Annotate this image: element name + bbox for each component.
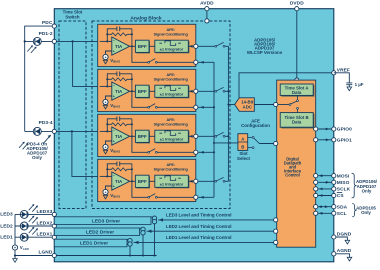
svg-text:GPIO1: GPIO1 — [337, 137, 352, 143]
svg-text:MISO: MISO — [337, 180, 350, 186]
AFE channel 1 — [98, 24, 229, 66]
wire LED2 level and timing — [147, 230, 276, 232]
LED supply bus — [15, 214, 21, 245]
LED2 — [20, 222, 28, 230]
wire SCL — [316, 212, 334, 214]
Analog Block dashed box — [92, 21, 230, 209]
wire SCLK — [316, 188, 334, 190]
time slot A data shadow — [281, 85, 314, 96]
time slot B data shadow — [281, 114, 314, 129]
svg-text:B: B — [241, 145, 244, 150]
svg-text:CS: CS — [337, 193, 345, 199]
svg-text:LED1: LED1 — [0, 235, 13, 241]
svg-text:PDC: PDC — [42, 20, 53, 26]
svg-text:SCLK: SCLK — [337, 187, 351, 193]
photons into PD1-2 — [27, 45, 36, 53]
wire config bus to slot select — [214, 142, 238, 144]
svg-text:ADC: ADC — [243, 104, 253, 109]
svg-text:+: + — [14, 246, 16, 250]
photons into PD3-4 — [19, 142, 28, 150]
svg-text:DGND: DGND — [337, 231, 352, 237]
svg-text:Only: Only — [361, 210, 371, 215]
svg-text:1 µF: 1 µF — [355, 82, 364, 87]
AFE channel 2 — [98, 69, 229, 111]
ground AGND — [347, 257, 352, 261]
svg-text:Select: Select — [237, 156, 250, 161]
svg-text:Only: Only — [362, 188, 372, 193]
brace I2C group — [352, 204, 356, 217]
switch slot select — [248, 137, 253, 147]
svg-text:Only: Only — [32, 155, 42, 160]
wire MISO — [316, 181, 334, 183]
LED2 driver box — [54, 228, 139, 236]
LED1 — [20, 233, 28, 241]
ground VLED — [13, 259, 18, 263]
photons from LED2 — [29, 216, 38, 224]
wire CS — [316, 195, 334, 197]
LED3 — [20, 210, 28, 218]
svg-text:LEDX1: LEDX1 — [37, 232, 53, 238]
svg-text:LED3: LED3 — [0, 212, 13, 218]
svg-text:LEDX3: LEDX3 — [37, 209, 53, 215]
svg-text:LED1 Level and Timing Control: LED1 Level and Timing Control — [166, 235, 232, 240]
brace SPI group — [352, 173, 357, 198]
svg-text:LED2 Driver: LED2 Driver — [86, 230, 114, 236]
AFE channel 4 — [98, 159, 229, 201]
wire ADC bus to ADC — [228, 104, 234, 106]
svg-text:Data: Data — [292, 90, 302, 95]
wire PDC external — [25, 26, 55, 131]
wire LED3 level and timing — [158, 219, 276, 221]
slot select A/B box — [238, 134, 248, 151]
LGND internal rail — [56, 255, 156, 257]
AFE channel 3 — [98, 114, 229, 156]
switch slot A/B data — [297, 95, 299, 112]
LED1 driver box — [54, 239, 127, 247]
svg-text:SCL: SCL — [337, 211, 347, 217]
svg-text:MOSI: MOSI — [337, 173, 350, 179]
svg-text:Data: Data — [292, 120, 302, 125]
AGND pin — [332, 252, 336, 256]
svg-text:SDA: SDA — [337, 204, 348, 210]
svg-text:LEDX2: LEDX2 — [37, 220, 53, 226]
svg-text:LED2 Level and Timing Control: LED2 Level and Timing Control — [166, 224, 232, 229]
node ADC into digital — [274, 102, 278, 106]
AVDD pin stub — [206, 9, 208, 21]
chip body ADPD105 — [54, 9, 334, 262]
LED1 current source — [127, 238, 130, 240]
svg-text:WLCSP Versions: WLCSP Versions — [247, 50, 283, 55]
wire GPIO1 — [316, 139, 334, 141]
svg-text:Control: Control — [285, 172, 300, 177]
digital datapath block — [277, 80, 316, 247]
wire VLED to LGND — [14, 250, 16, 259]
wire LED1 level and timing — [134, 241, 276, 243]
svg-text:GPIO0: GPIO0 — [337, 127, 352, 133]
DVDD line — [296, 9, 298, 80]
register Time Slot B Data — [280, 113, 313, 128]
photodiode PD1-2 — [25, 40, 55, 42]
svg-text:LGND: LGND — [38, 249, 52, 255]
photodiode PD3-4 — [25, 130, 55, 132]
ground DGND — [345, 240, 350, 244]
LED3 current source — [151, 216, 155, 218]
svg-text:AGND: AGND — [337, 248, 352, 254]
svg-text:LED2: LED2 — [0, 223, 13, 229]
photons from LED1 — [29, 227, 38, 235]
svg-text:DVDD: DVDD — [290, 0, 304, 6]
svg-text:Configuration: Configuration — [241, 123, 270, 128]
wire SDA — [316, 206, 334, 208]
svg-text:PD3-4: PD3-4 — [39, 120, 53, 126]
wire PD3-4 to AFE3 — [56, 130, 97, 132]
register Time Slot A Data — [280, 84, 313, 95]
svg-text:Switch: Switch — [65, 14, 79, 19]
svg-text:PD1-2: PD1-2 — [39, 31, 53, 37]
LGND pin — [52, 253, 56, 257]
node slot select into digital — [274, 141, 278, 145]
svg-text:Analog Block: Analog Block — [130, 16, 162, 22]
LED2 current source — [140, 227, 144, 229]
AFE configuration bus — [213, 62, 215, 197]
svg-text:LED1 Driver: LED1 Driver — [80, 241, 108, 247]
svg-text:LED3 Driver: LED3 Driver — [92, 218, 120, 224]
ADC input bus — [227, 46, 229, 181]
wire PD3-4 branch to AFE4 — [72, 131, 98, 176]
wire PD1-2 branch to AFE2 — [73, 41, 98, 86]
note arrow to PD3-4 pin — [43, 137, 49, 144]
wire MOSI — [316, 175, 334, 177]
photons from LED3 — [29, 204, 38, 212]
LED3 driver box — [54, 217, 151, 225]
source VLED — [12, 245, 17, 250]
svg-text:LED3 Level and Timing Control: LED3 Level and Timing Control — [166, 213, 232, 218]
svg-text:VLED: VLED — [20, 245, 30, 251]
svg-text:AVDD: AVDD — [200, 0, 214, 6]
wire VREF to ADC — [239, 73, 334, 98]
wire PD1-2 to AFE1 — [56, 40, 97, 42]
DGND pin — [332, 235, 336, 239]
wire ADC to slot switch — [278, 104, 289, 106]
capacitor 1uF external — [334, 73, 353, 87]
wire GPIO0 — [316, 128, 334, 130]
14-bit ADC — [235, 98, 255, 112]
VREF pin — [332, 71, 336, 75]
Time Slot Switch dashed box — [59, 21, 86, 209]
wire ADC to digital block — [254, 104, 275, 106]
